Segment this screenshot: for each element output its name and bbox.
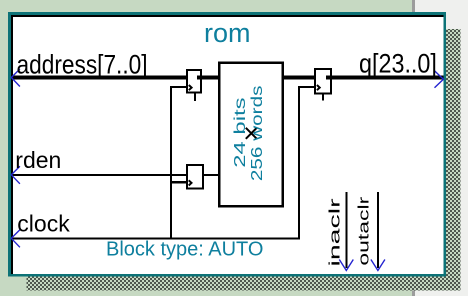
svg-text:clock: clock	[17, 211, 70, 237]
svg-text:q[23..0]: q[23..0]	[359, 49, 437, 79]
svg-text:inaclr: inaclr	[326, 198, 343, 267]
svg-text:outaclr: outaclr	[355, 196, 372, 265]
svg-text:256 words: 256 words	[247, 86, 265, 182]
svg-text:rden: rden	[15, 147, 61, 173]
svg-text:Block type: AUTO: Block type: AUTO	[106, 239, 263, 261]
svg-text:address[7..0]: address[7..0]	[17, 50, 148, 80]
svg-text:rom: rom	[204, 18, 251, 48]
